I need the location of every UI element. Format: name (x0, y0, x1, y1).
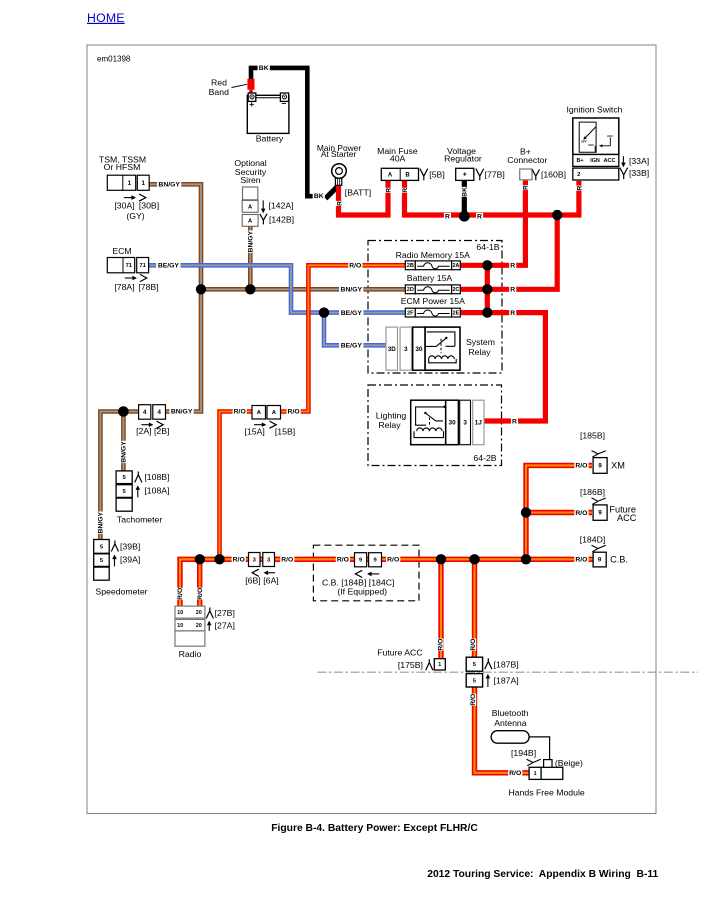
svg-text:R: R (523, 185, 530, 190)
svg-text:R: R (510, 263, 515, 270)
svg-text:Band: Band (209, 87, 229, 97)
svg-text:Hands Free Module: Hands Free Module (508, 787, 584, 797)
svg-text:[175B]: [175B] (398, 660, 423, 670)
svg-text:[33A]: [33A] (629, 156, 649, 166)
svg-text:R/O: R/O (509, 770, 521, 777)
svg-text:B+: B+ (576, 158, 583, 164)
svg-text:HOME: HOME (87, 11, 125, 25)
svg-text:(If Equipped): (If Equipped) (337, 587, 387, 597)
svg-text:10: 10 (177, 610, 183, 616)
svg-text:R/O: R/O (575, 557, 587, 564)
svg-text:−: − (282, 99, 287, 109)
svg-text:em01398: em01398 (97, 54, 131, 63)
svg-text:BE/GY: BE/GY (341, 310, 363, 317)
svg-text:ECM: ECM (112, 246, 131, 256)
svg-text:(GY): (GY) (126, 211, 144, 221)
svg-text:71: 71 (126, 263, 133, 269)
svg-text:[33B]: [33B] (629, 168, 649, 178)
svg-text:BN/GY: BN/GY (121, 441, 128, 463)
svg-text:BE/GY: BE/GY (341, 343, 363, 350)
svg-text:2E: 2E (452, 311, 459, 317)
svg-text:R: R (402, 188, 409, 193)
svg-text:C.B.: C.B. (610, 555, 628, 565)
svg-text:R: R (385, 188, 392, 193)
svg-text:R/O: R/O (337, 557, 349, 564)
svg-text:Relay: Relay (378, 420, 401, 430)
svg-text:BN/GY: BN/GY (171, 409, 193, 416)
svg-text:BE/GY: BE/GY (158, 263, 180, 270)
svg-text:[142B]: [142B] (269, 214, 294, 224)
svg-text:64-2B: 64-2B (473, 453, 496, 463)
svg-text:R/O: R/O (575, 463, 587, 470)
svg-text:[6B]: [6B] (245, 576, 260, 586)
svg-text:[78B]: [78B] (138, 282, 158, 292)
svg-text:[160B]: [160B] (541, 169, 566, 179)
svg-text:Or HFSM: Or HFSM (104, 162, 141, 172)
svg-text:[15B]: [15B] (275, 427, 295, 437)
svg-text:BK: BK (314, 193, 324, 200)
svg-text:R/O: R/O (470, 639, 477, 651)
svg-text:+: + (463, 172, 467, 179)
svg-text:Figure B-4. Battery Power: Exc: Figure B-4. Battery Power: Except FLHR/C (271, 823, 478, 834)
svg-text:4: 4 (157, 409, 161, 416)
svg-text:Battery 15A: Battery 15A (407, 273, 453, 283)
svg-text:[194B]: [194B] (511, 748, 536, 758)
svg-text:Tachometer: Tachometer (117, 515, 162, 525)
svg-text:[5B]: [5B] (429, 169, 444, 179)
svg-text:R: R (510, 287, 515, 294)
svg-text:OFF: OFF (581, 139, 587, 143)
svg-text:Future ACC: Future ACC (377, 647, 422, 657)
svg-text:Radio: Radio (179, 649, 202, 659)
svg-text:A: A (388, 172, 393, 178)
svg-text:Lighting: Lighting (376, 410, 407, 420)
svg-text:2B: 2B (407, 263, 414, 269)
svg-text:1J: 1J (475, 420, 483, 427)
svg-text:BK: BK (462, 187, 469, 197)
svg-text:System: System (466, 337, 495, 347)
svg-text:20: 20 (196, 623, 202, 629)
svg-text:R/O: R/O (177, 588, 184, 600)
svg-text:Bluetooth: Bluetooth (492, 708, 529, 718)
svg-text:[39A]: [39A] (120, 555, 140, 565)
svg-text:Battery: Battery (256, 133, 284, 143)
svg-text:4: 4 (143, 409, 147, 416)
svg-text:30: 30 (415, 346, 423, 353)
svg-text:+: + (249, 99, 254, 109)
svg-text:2A: 2A (452, 263, 459, 269)
svg-text:71: 71 (139, 263, 146, 269)
svg-text:Connector: Connector (507, 155, 547, 165)
svg-text:[2A]: [2A] (136, 426, 151, 436)
svg-text:[186B]: [186B] (580, 487, 605, 497)
svg-text:R/O: R/O (288, 409, 300, 416)
svg-text:IGN: IGN (590, 158, 600, 164)
svg-text:2F: 2F (407, 311, 414, 317)
svg-text:R: R (477, 214, 482, 221)
svg-text:2D: 2D (407, 287, 414, 293)
svg-text:[184D]: [184D] (580, 535, 606, 545)
svg-text:1: 1 (438, 662, 441, 668)
svg-text:[187A]: [187A] (494, 675, 519, 685)
svg-text:2C: 2C (452, 287, 459, 293)
svg-text:[27A]: [27A] (215, 621, 235, 631)
svg-text:[BATT]: [BATT] (345, 187, 371, 197)
svg-text:[2B]: [2B] (154, 426, 169, 436)
svg-text:[6A]: [6A] (263, 576, 278, 586)
svg-text:1: 1 (534, 771, 537, 777)
svg-text:10: 10 (177, 623, 183, 629)
svg-text:R: R (512, 418, 517, 425)
svg-text:[30B]: [30B] (139, 201, 159, 211)
svg-text:[108A]: [108A] (144, 486, 169, 496)
svg-text:Antenna: Antenna (494, 718, 527, 728)
svg-text:[30A]: [30A] (114, 201, 134, 211)
svg-text:[15A]: [15A] (245, 427, 265, 437)
svg-text:[39B]: [39B] (120, 542, 140, 552)
svg-text:R: R (336, 201, 343, 206)
svg-text:R/O: R/O (575, 510, 587, 517)
svg-text:IGN: IGN (589, 143, 594, 147)
svg-text:Radio Memory 15A: Radio Memory 15A (396, 250, 471, 260)
svg-text:1: 1 (141, 180, 145, 187)
svg-text:B: B (405, 172, 410, 178)
svg-text:[108B]: [108B] (144, 472, 169, 482)
svg-text:ACC: ACC (604, 158, 616, 164)
svg-text:R/O: R/O (281, 557, 293, 564)
svg-text:[187B]: [187B] (494, 660, 519, 670)
svg-text:30: 30 (449, 420, 457, 427)
svg-text:(Beige): (Beige) (555, 758, 583, 768)
svg-text:1: 1 (128, 180, 132, 187)
svg-text:R: R (445, 214, 450, 221)
svg-text:3D: 3D (388, 346, 396, 353)
svg-text:BN/GY: BN/GY (248, 230, 255, 252)
svg-text:R/O: R/O (387, 557, 399, 564)
svg-text:[78A]: [78A] (114, 282, 134, 292)
svg-text:Ignition Switch: Ignition Switch (566, 104, 622, 114)
svg-text:BN/GY: BN/GY (158, 182, 180, 189)
svg-text:R: R (576, 186, 583, 191)
svg-text:XM: XM (611, 461, 625, 471)
svg-text:[142A]: [142A] (268, 201, 293, 211)
svg-text:R: R (510, 310, 515, 317)
svg-text:20: 20 (196, 610, 202, 616)
svg-text:[77B]: [77B] (485, 169, 505, 179)
svg-text:[27B]: [27B] (215, 608, 235, 618)
svg-text:BN/GY: BN/GY (341, 287, 363, 294)
svg-text:Regulator: Regulator (444, 154, 482, 164)
svg-text:At Starter: At Starter (321, 149, 357, 159)
svg-text:2: 2 (577, 172, 580, 178)
svg-text:R/O: R/O (197, 588, 204, 600)
svg-text:Relay: Relay (468, 347, 491, 357)
svg-text:BK: BK (259, 65, 269, 72)
svg-text:ACC: ACC (617, 513, 637, 523)
svg-text:3: 3 (404, 346, 408, 353)
svg-text:Siren: Siren (240, 175, 260, 185)
svg-text:3: 3 (463, 420, 467, 427)
svg-text:R/O: R/O (470, 694, 477, 706)
svg-text:BN/GY: BN/GY (98, 511, 105, 533)
svg-text:Speedometer: Speedometer (95, 587, 147, 597)
svg-text:R/O: R/O (437, 639, 444, 651)
svg-text:64-1B: 64-1B (476, 242, 499, 252)
svg-text:R/O: R/O (234, 409, 246, 416)
svg-text:R/O: R/O (233, 557, 245, 564)
svg-text:40A: 40A (390, 154, 406, 164)
svg-text:[185B]: [185B] (580, 431, 605, 441)
svg-text:R/O: R/O (349, 263, 361, 270)
svg-text:ECM Power 15A: ECM Power 15A (401, 296, 465, 306)
svg-text:2012 Touring Service: Appendi: 2012 Touring Service: Appendix B Wiring … (427, 869, 658, 880)
